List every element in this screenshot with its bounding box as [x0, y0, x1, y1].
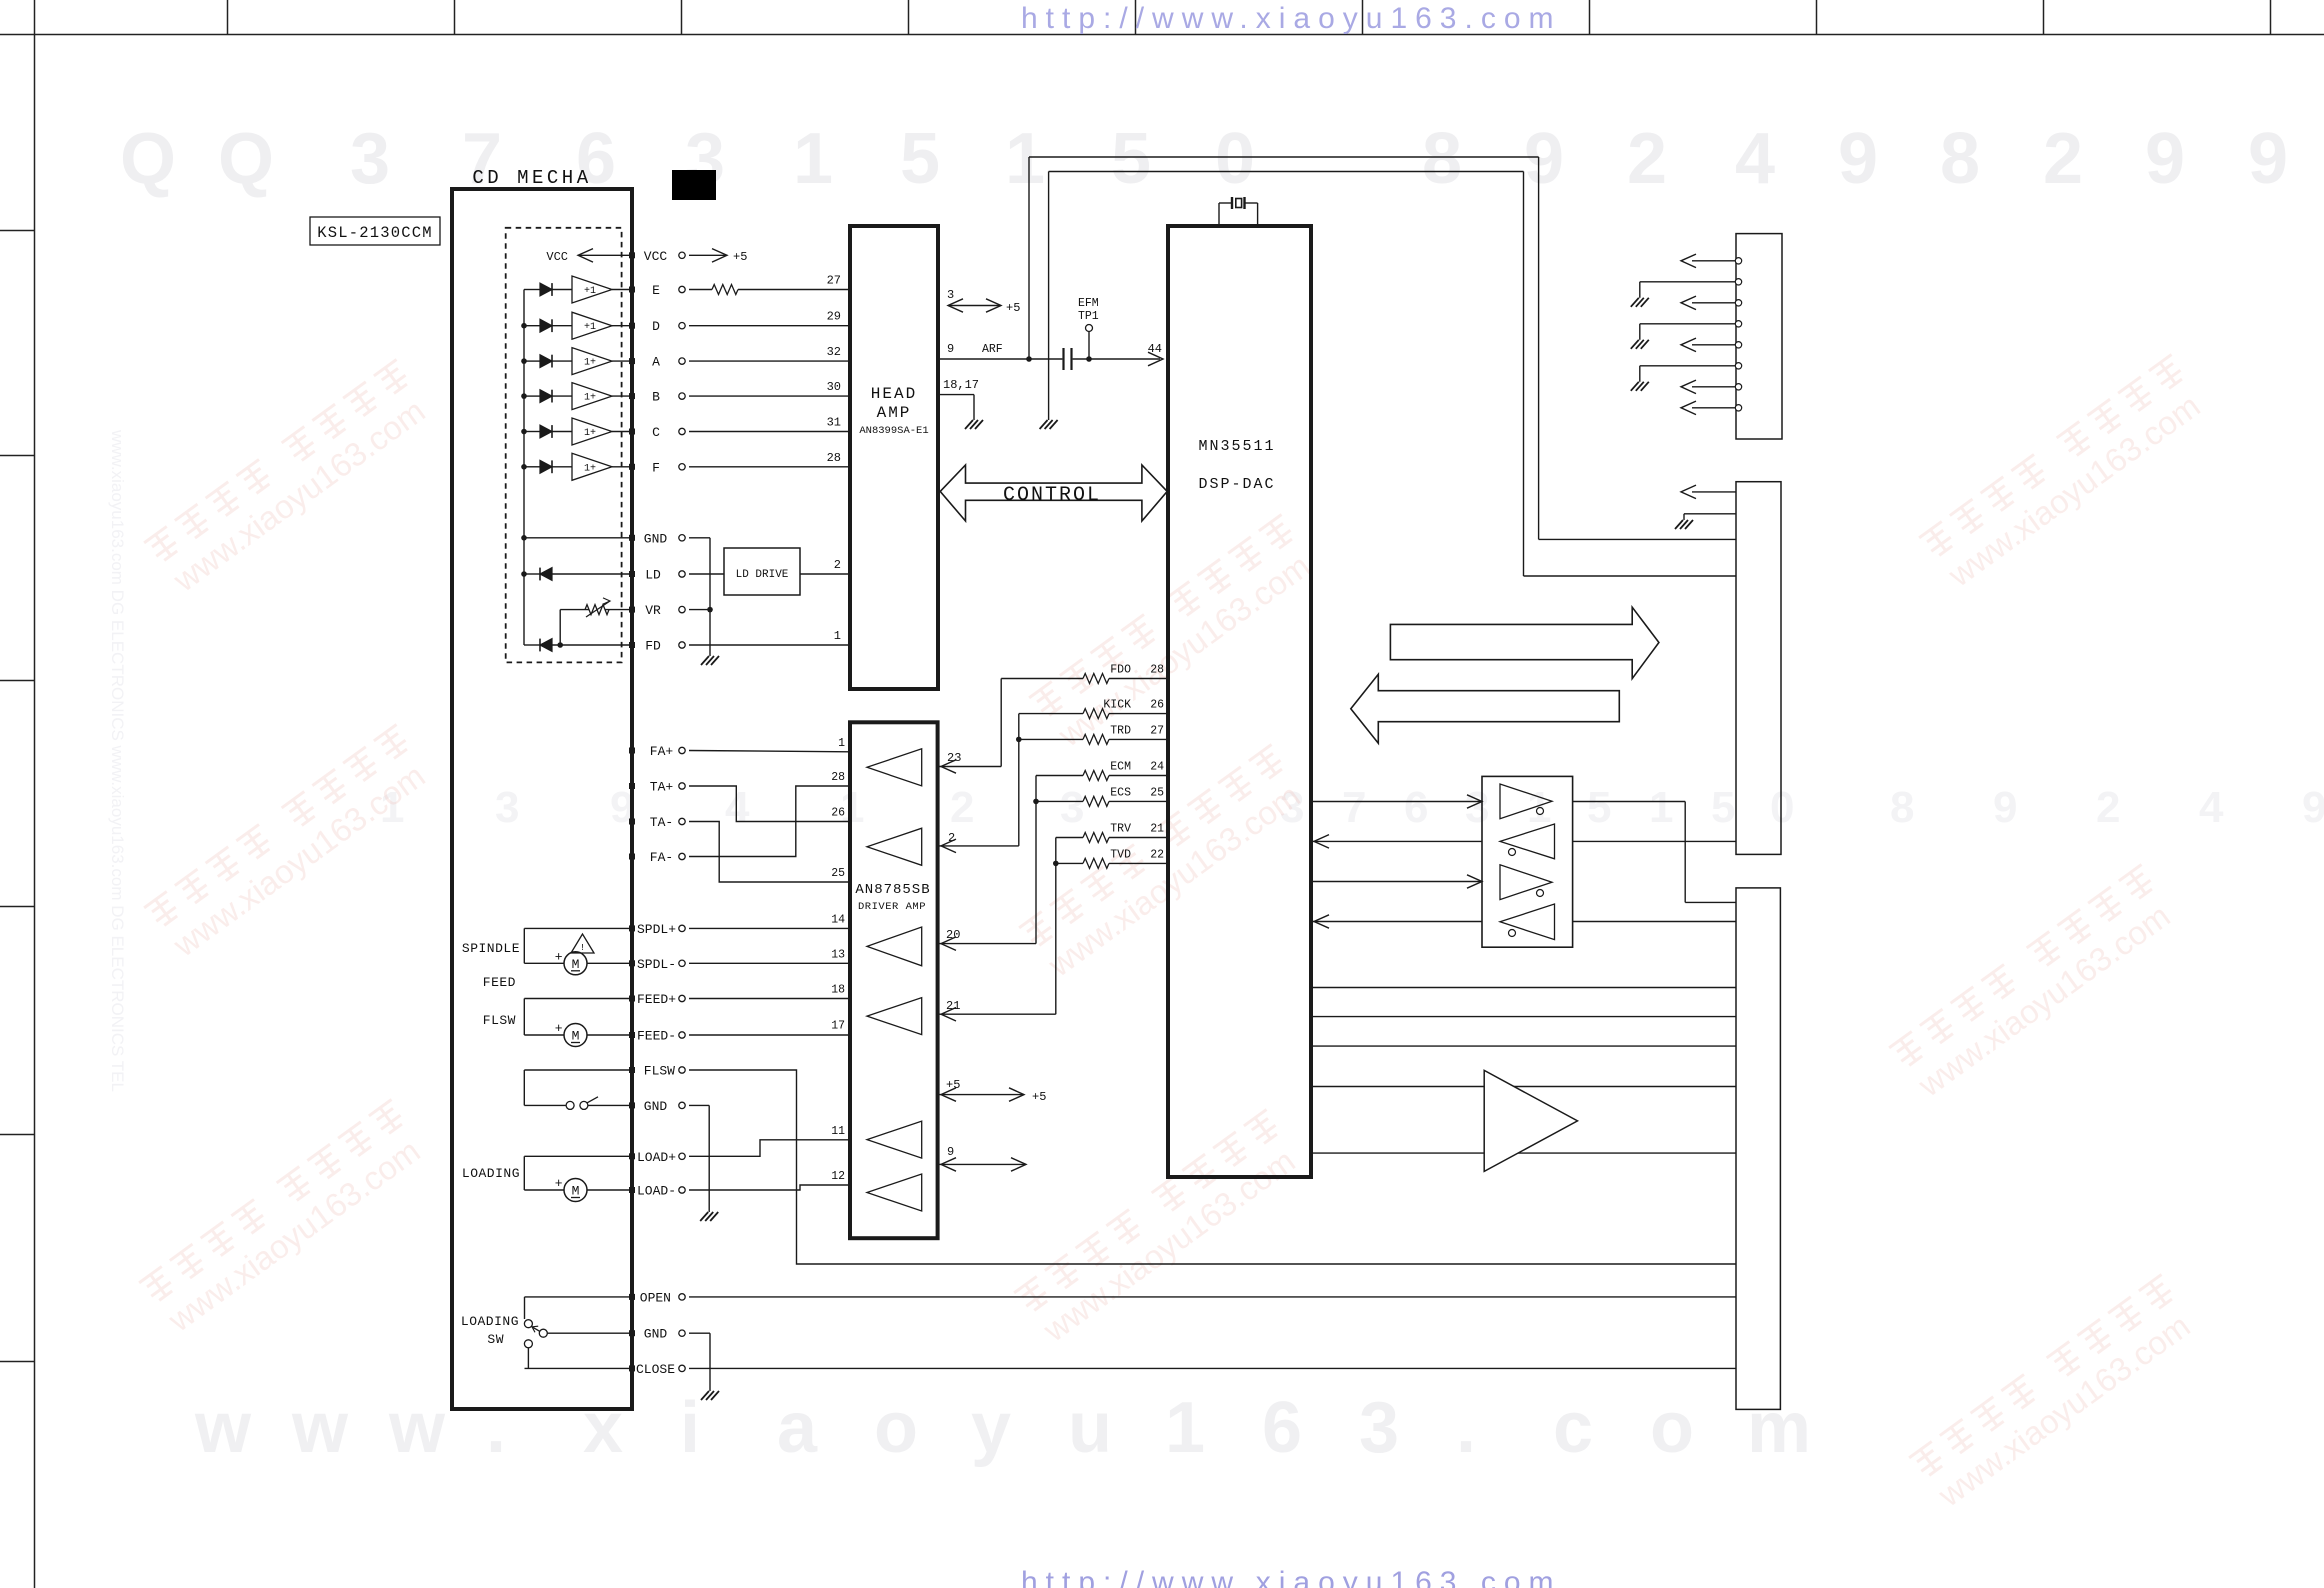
svg-text:9: 9 — [1993, 783, 2017, 832]
svg-text:44: 44 — [1148, 342, 1162, 356]
svg-text:KICK: KICK — [1103, 699, 1131, 712]
svg-text:0: 0 — [1215, 119, 1255, 199]
svg-text:14: 14 — [831, 913, 845, 926]
svg-text:y: y — [971, 1388, 1011, 1468]
svg-text:c: c — [1553, 1388, 1593, 1468]
svg-text:28: 28 — [831, 771, 845, 784]
svg-text:5: 5 — [900, 119, 940, 199]
svg-text:2: 2 — [950, 783, 974, 832]
svg-text:FEED: FEED — [483, 975, 516, 990]
svg-text:13: 13 — [831, 948, 845, 961]
svg-text:.: . — [486, 1388, 506, 1468]
svg-text:FEED-: FEED- — [637, 1029, 676, 1044]
svg-text:22: 22 — [1150, 848, 1164, 861]
svg-text:LOAD+: LOAD+ — [637, 1150, 676, 1165]
svg-text:26: 26 — [831, 807, 845, 820]
svg-text:30: 30 — [827, 380, 841, 394]
svg-text:x: x — [583, 1388, 623, 1468]
svg-text:31: 31 — [827, 416, 841, 430]
svg-text:i: i — [680, 1388, 700, 1468]
svg-text:B: B — [652, 390, 660, 405]
svg-text:2: 2 — [1627, 119, 1667, 199]
svg-text:u: u — [1068, 1388, 1112, 1468]
svg-text:GND: GND — [644, 1327, 668, 1342]
svg-text:TA-: TA- — [650, 815, 673, 830]
svg-text:M: M — [572, 957, 580, 972]
svg-text:ECS: ECS — [1110, 786, 1131, 799]
svg-text:TRD: TRD — [1110, 724, 1131, 737]
svg-text:27: 27 — [827, 274, 841, 288]
svg-text:3: 3 — [947, 288, 954, 302]
svg-text:1+: 1+ — [584, 463, 596, 474]
svg-text:C: C — [652, 425, 660, 440]
svg-text:8: 8 — [1422, 119, 1462, 199]
svg-text:4: 4 — [1735, 119, 1775, 199]
svg-text:SW: SW — [487, 1332, 504, 1347]
svg-text:http://www.xiaoyu163.com: http://www.xiaoyu163.com — [1021, 2, 1562, 35]
svg-text:LOADING: LOADING — [461, 1314, 519, 1329]
svg-text:5: 5 — [1111, 119, 1151, 199]
svg-text:A: A — [652, 355, 660, 370]
svg-text:3: 3 — [495, 783, 519, 832]
svg-text:6: 6 — [1404, 783, 1428, 832]
svg-text:8: 8 — [1940, 119, 1980, 199]
svg-text:1+: 1+ — [584, 393, 596, 404]
svg-text:3: 3 — [1359, 1388, 1399, 1468]
svg-text:2: 2 — [834, 558, 841, 572]
svg-text:DSP-DAC: DSP-DAC — [1198, 476, 1275, 493]
svg-text:SPDL-: SPDL- — [637, 957, 676, 972]
svg-text:9: 9 — [2248, 119, 2288, 199]
svg-text:+5: +5 — [1006, 301, 1020, 315]
svg-text:TVD: TVD — [1110, 848, 1131, 861]
svg-text:9: 9 — [947, 1145, 954, 1159]
svg-text:GND: GND — [644, 1099, 668, 1114]
svg-text:1: 1 — [838, 737, 845, 750]
svg-text:+5: +5 — [1032, 1090, 1046, 1104]
svg-text:VCC: VCC — [546, 250, 568, 264]
svg-text:AN8399SA-E1: AN8399SA-E1 — [859, 425, 928, 437]
svg-text:4: 4 — [2199, 783, 2224, 832]
svg-text:1: 1 — [793, 119, 833, 199]
svg-text:0: 0 — [1770, 783, 1794, 832]
svg-text:+5: +5 — [946, 1078, 960, 1092]
svg-text:1: 1 — [1165, 1388, 1205, 1468]
svg-text:M: M — [572, 1029, 580, 1044]
svg-text:!: ! — [580, 942, 586, 953]
svg-text:VR: VR — [645, 603, 661, 618]
svg-text:VCC: VCC — [644, 249, 668, 264]
svg-text:11: 11 — [831, 1125, 845, 1138]
svg-text:29: 29 — [827, 310, 841, 324]
svg-text:+: + — [555, 949, 563, 964]
svg-text:CLOSE: CLOSE — [636, 1362, 675, 1377]
svg-text:21: 21 — [1150, 823, 1164, 836]
svg-text:18,17: 18,17 — [943, 378, 979, 392]
svg-text:17: 17 — [831, 1020, 845, 1033]
svg-text:ECM: ECM — [1110, 761, 1131, 774]
svg-text:w: w — [291, 1388, 349, 1468]
svg-text:8: 8 — [1890, 783, 1914, 832]
svg-text:FLSW: FLSW — [483, 1013, 516, 1028]
svg-text:25: 25 — [831, 867, 845, 880]
svg-text:CONTROL: CONTROL — [1003, 484, 1101, 507]
svg-text:D: D — [652, 319, 660, 334]
svg-text:F: F — [652, 460, 660, 475]
svg-text:27: 27 — [1150, 724, 1164, 737]
svg-text:OPEN: OPEN — [640, 1290, 671, 1305]
svg-text:GND: GND — [644, 531, 668, 546]
svg-text:2: 2 — [2096, 783, 2120, 832]
svg-text:http://www.xiaoyu163.com: http://www.xiaoyu163.com — [1021, 1566, 1562, 1588]
svg-text:5: 5 — [1711, 783, 1735, 832]
svg-text:AN8785SB: AN8785SB — [855, 882, 930, 898]
svg-text:LD: LD — [645, 568, 661, 583]
svg-text:HEAD: HEAD — [871, 385, 917, 403]
svg-text:3: 3 — [350, 119, 390, 199]
svg-text:www.xiaoyu163.com DG ELECTRONI: www.xiaoyu163.com DG ELECTRONICS www.xia… — [108, 429, 127, 1092]
svg-text:EFM: EFM — [1078, 297, 1099, 310]
svg-text:FLSW: FLSW — [644, 1064, 675, 1079]
svg-text:25: 25 — [1150, 786, 1164, 799]
svg-text:4: 4 — [725, 783, 750, 832]
svg-text:LOAD-: LOAD- — [637, 1184, 676, 1199]
svg-text:9: 9 — [1524, 119, 1564, 199]
svg-text:+: + — [555, 1176, 563, 1191]
svg-text:1: 1 — [834, 629, 841, 643]
svg-text:AMP: AMP — [877, 404, 912, 422]
svg-text:SPDL+: SPDL+ — [637, 922, 676, 937]
svg-text:ARF: ARF — [982, 343, 1003, 356]
svg-text:TRV: TRV — [1110, 823, 1131, 836]
svg-text:FA+: FA+ — [650, 744, 674, 759]
svg-text:w: w — [388, 1388, 446, 1468]
svg-text:Q: Q — [120, 119, 176, 199]
svg-text:28: 28 — [827, 451, 841, 465]
svg-text:DRIVER AMP: DRIVER AMP — [858, 901, 926, 913]
svg-text:FD: FD — [645, 639, 661, 654]
svg-text:.: . — [1456, 1388, 1476, 1468]
svg-text:32: 32 — [827, 345, 841, 359]
svg-text:9: 9 — [1838, 119, 1878, 199]
svg-text:M: M — [572, 1184, 580, 1199]
svg-text:a: a — [777, 1388, 818, 1468]
svg-text:2: 2 — [2043, 119, 2083, 199]
svg-text:E: E — [652, 283, 660, 298]
svg-text:FDO: FDO — [1110, 664, 1131, 677]
svg-text:w: w — [194, 1388, 252, 1468]
svg-text:o: o — [874, 1388, 918, 1468]
svg-text:m: m — [1747, 1388, 1811, 1468]
svg-text:1: 1 — [1005, 119, 1045, 199]
svg-text:o: o — [1650, 1388, 1694, 1468]
svg-text:9: 9 — [2302, 783, 2324, 832]
svg-text:28: 28 — [1150, 664, 1164, 677]
svg-text:TA+: TA+ — [650, 780, 674, 795]
svg-text:CD MECHA: CD MECHA — [472, 167, 591, 189]
svg-text:SPINDLE: SPINDLE — [462, 941, 520, 956]
svg-text:TP1: TP1 — [1078, 310, 1099, 323]
svg-text:1: 1 — [1649, 783, 1673, 832]
svg-text:LD DRIVE: LD DRIVE — [736, 569, 789, 581]
svg-text:MN35511: MN35511 — [1198, 438, 1275, 455]
svg-text:6: 6 — [1262, 1388, 1302, 1468]
svg-text:FA-: FA- — [650, 850, 673, 865]
svg-text:9: 9 — [947, 342, 954, 356]
svg-text:3: 3 — [1060, 783, 1084, 832]
svg-text:Q: Q — [218, 119, 274, 199]
svg-text:5: 5 — [1587, 783, 1611, 832]
svg-text:12: 12 — [831, 1170, 845, 1183]
svg-text:+1: +1 — [584, 286, 596, 297]
svg-text:18: 18 — [831, 984, 845, 997]
svg-text:26: 26 — [1150, 699, 1164, 712]
svg-text:9: 9 — [2145, 119, 2185, 199]
svg-text:KSL-2130CCM: KSL-2130CCM — [317, 224, 433, 242]
svg-text:1+: 1+ — [584, 428, 596, 439]
svg-text:LOADING: LOADING — [462, 1166, 520, 1181]
svg-text:+: + — [555, 1021, 563, 1036]
svg-text:+1: +1 — [584, 322, 596, 333]
svg-text:1+: 1+ — [584, 358, 596, 369]
svg-text:7: 7 — [1342, 783, 1366, 832]
svg-text:FEED+: FEED+ — [637, 992, 676, 1007]
svg-text:24: 24 — [1150, 761, 1164, 774]
svg-text:+5: +5 — [733, 250, 747, 264]
